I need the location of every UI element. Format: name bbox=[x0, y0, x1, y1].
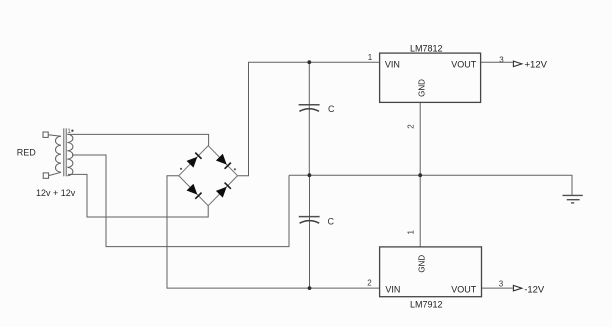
svg-text:12v + 12v: 12v + 12v bbox=[36, 188, 76, 198]
core line right bbox=[65, 128, 67, 176]
svg-text:2: 2 bbox=[367, 279, 372, 288]
svg-text:+12V: +12V bbox=[525, 59, 548, 70]
core line left bbox=[63, 128, 65, 176]
diode D3 bottom-left bbox=[187, 184, 202, 199]
capacitor C2 bbox=[299, 217, 320, 224]
svg-text:C: C bbox=[328, 104, 335, 114]
regulator U1 LM7812 bbox=[380, 43, 481, 102]
junction dot ground rail gnd pin bbox=[418, 173, 422, 177]
svg-text:2: 2 bbox=[407, 124, 416, 129]
wire secondary top to bridge AC top bbox=[67, 134, 208, 145]
svg-text:VOUT: VOUT bbox=[451, 285, 477, 295]
ground rail wire bbox=[289, 175, 572, 195]
output arrow +12V bbox=[513, 61, 521, 67]
junction dot top rail bbox=[307, 60, 311, 64]
bridge corner mark right bbox=[234, 168, 236, 170]
wire capacitor C1 branch bbox=[308, 62, 310, 175]
primary terminal square bottom bbox=[43, 173, 48, 178]
primary lead top bbox=[48, 135, 61, 137]
primary winding bbox=[56, 136, 62, 172]
primary lead bottom bbox=[49, 172, 61, 175]
svg-text:VIN: VIN bbox=[385, 285, 400, 295]
diode D2 top-right bbox=[216, 154, 231, 169]
svg-text:LM7912: LM7912 bbox=[410, 300, 443, 310]
bridge rectifier diamond bbox=[179, 146, 238, 206]
wire GND pins vertical bbox=[419, 102, 421, 247]
svg-text:GND: GND bbox=[418, 255, 427, 273]
transformer TR1 bbox=[43, 128, 73, 178]
junction dot bottom rail bbox=[308, 286, 312, 290]
svg-text:3: 3 bbox=[499, 55, 504, 64]
svg-text:C: C bbox=[328, 217, 335, 227]
wire secondary bottom to bridge AC bottom bbox=[68, 174, 208, 217]
svg-text:1: 1 bbox=[407, 230, 416, 235]
svg-text:1: 1 bbox=[368, 53, 373, 62]
diode D4 bottom-right bbox=[216, 183, 231, 198]
wire LM7812 VOUT to +12V bbox=[481, 61, 513, 63]
svg-text:LM7812: LM7812 bbox=[410, 43, 443, 53]
junction dot ground rail cap bbox=[308, 173, 312, 177]
svg-text:VOUT: VOUT bbox=[451, 59, 477, 69]
wire bridge plus to LM7812 VIN bbox=[238, 62, 380, 176]
svg-text:-12V: -12V bbox=[524, 284, 545, 295]
svg-text:RED: RED bbox=[17, 148, 37, 158]
pin marker 1 with dot bbox=[67, 128, 73, 135]
wire capacitor C2 branch bbox=[309, 175, 311, 288]
svg-text:GND: GND bbox=[418, 79, 427, 97]
bridge corner mark left bbox=[180, 168, 182, 170]
wire bridge minus to LM7912 VIN bbox=[167, 176, 380, 288]
capacitor C1 bbox=[299, 105, 320, 112]
wire center tap to ground rail bbox=[72, 155, 289, 247]
ground symbol bbox=[563, 195, 583, 203]
wire LM7912 VOUT to -12V bbox=[482, 287, 513, 289]
svg-text:VIN: VIN bbox=[385, 59, 400, 69]
diode D1 top-left bbox=[187, 153, 202, 168]
output arrow -12V bbox=[513, 285, 521, 291]
primary terminal square top bbox=[43, 132, 48, 137]
regulator U2 LM7912 bbox=[380, 247, 482, 310]
secondary winding bbox=[67, 134, 73, 176]
svg-text:3: 3 bbox=[499, 279, 504, 288]
